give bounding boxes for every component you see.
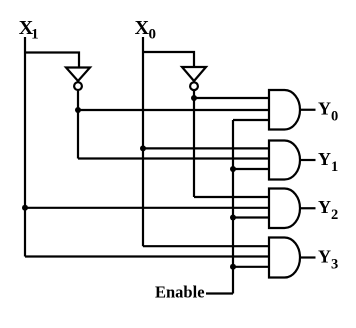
and-gate U3 (269, 90, 300, 130)
wire X1 to inverter U1 input (25, 53, 79, 68)
node Enable junction 2 (230, 215, 236, 221)
wire U5 output (300, 207, 316, 209)
wire X1 vertical (24, 37, 26, 257)
wire U6 output (300, 256, 316, 258)
wire X0n to U5 input 1 (194, 196, 269, 198)
wire Enable to U4 input 3 (233, 168, 269, 170)
inverter U2 bubble (190, 82, 198, 90)
wire X0 to inverter U2 input (143, 52, 194, 67)
svg-text:Y1: Y1 (318, 149, 338, 175)
wire Enable to U5 input 3 (233, 216, 269, 218)
wire Enable to U3 input 3 (233, 119, 269, 121)
wire U4 output (300, 159, 316, 161)
node X0 junction (140, 145, 146, 151)
wire X1n vertical (77, 91, 79, 159)
node X1 junction (22, 205, 28, 211)
inverter U1 (66, 68, 90, 82)
wire X1n to U3 input 2 (78, 109, 269, 111)
wire X1 to U5 input 2 (25, 207, 269, 209)
and-gate U6 (269, 238, 300, 278)
svg-text:Y0: Y0 (318, 99, 338, 125)
wire X0n vertical (193, 91, 195, 197)
node X0n junction (191, 95, 197, 101)
svg-text:Enable: Enable (155, 282, 205, 301)
wire X0 to U4 input 1 (143, 147, 269, 149)
wire X1 to U6 input 2 (25, 255, 269, 257)
svg-text:Y2: Y2 (318, 197, 338, 223)
inverter U1 bubble (74, 82, 82, 90)
wire X0n to U3 input 1 (194, 97, 269, 99)
wire Enable vertical (232, 120, 234, 294)
svg-text:Y3: Y3 (318, 246, 338, 272)
node Enable junction 1 (230, 166, 236, 172)
node X1n junction (75, 107, 81, 113)
svg-text:X0: X0 (135, 17, 156, 43)
inverter U2 (182, 67, 206, 81)
wire U3 output (300, 109, 316, 111)
wire X0 vertical (142, 37, 144, 246)
svg-text:X1: X1 (19, 17, 39, 43)
node Enable junction 3 (230, 264, 236, 270)
wire Enable to U6 input 3 (233, 266, 269, 268)
wire X0 to U6 input 1 (143, 245, 269, 247)
wire Enable lead (206, 292, 233, 294)
and-gate U5 (269, 189, 300, 229)
wire X1n to U4 input 2 (78, 157, 269, 159)
and-gate U4 (269, 141, 300, 180)
